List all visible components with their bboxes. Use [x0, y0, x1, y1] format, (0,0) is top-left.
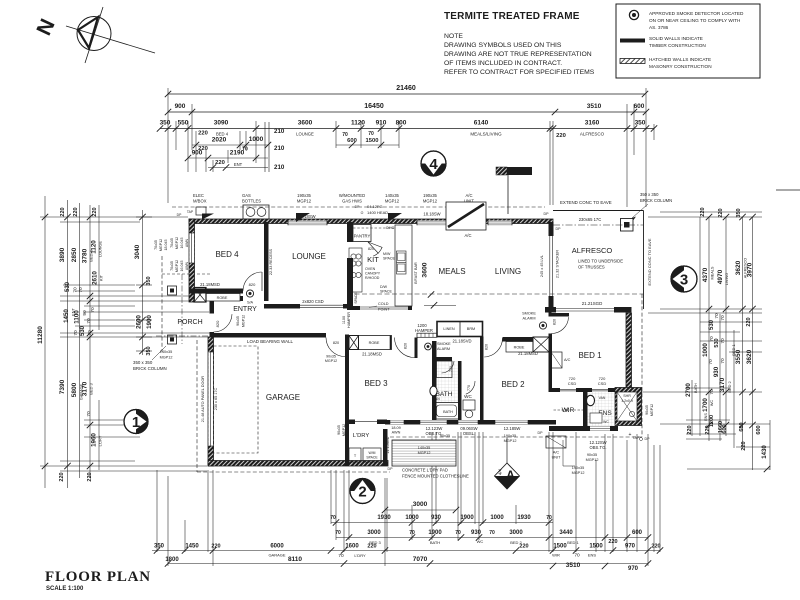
svg-text:TAP: TAP: [187, 210, 194, 214]
svg-text:70: 70: [73, 330, 79, 336]
svg-text:AWN: AWN: [392, 431, 401, 435]
svg-text:BRICK COLUMN: BRICK COLUMN: [133, 366, 167, 371]
svg-text:220: 220: [700, 207, 706, 216]
svg-text:OF TRUSSES: OF TRUSSES: [578, 265, 605, 270]
svg-text:90x35: 90x35: [236, 316, 240, 326]
svg-text:A/C: A/C: [553, 451, 560, 455]
svg-text:DRAWING ARE NOT TRUE REPRESENT: DRAWING ARE NOT TRUE REPRESENTATION: [444, 51, 592, 58]
svg-text:190x35: 190x35: [297, 193, 311, 198]
svg-text:90x35: 90x35: [337, 425, 341, 435]
svg-text:1500: 1500: [553, 544, 567, 550]
svg-text:70: 70: [335, 530, 341, 536]
svg-text:70x35: 70x35: [170, 238, 174, 248]
svg-text:1930: 1930: [517, 515, 531, 521]
svg-text:BATH: BATH: [443, 410, 453, 414]
svg-text:21460: 21460: [396, 85, 416, 92]
svg-text:70: 70: [86, 411, 92, 417]
svg-text:OF ITEMS INCLUDED IN CONTRACT.: OF ITEMS INCLUDED IN CONTRACT.: [444, 60, 562, 67]
svg-text:ALFRESCO: ALFRESCO: [572, 246, 613, 255]
svg-text:2850: 2850: [71, 247, 78, 262]
svg-text:70: 70: [87, 330, 93, 336]
svg-text:1100: 1100: [74, 310, 81, 324]
svg-text:530: 530: [80, 325, 86, 336]
svg-text:220: 220: [367, 544, 376, 550]
svg-text:BOTTLES: BOTTLES: [242, 199, 261, 204]
svg-text:CSD: CSD: [598, 381, 607, 386]
svg-text:3550: 3550: [735, 349, 742, 364]
svg-text:BRM: BRM: [467, 327, 475, 331]
svg-text:90x35: 90x35: [440, 434, 450, 438]
svg-text:1900: 1900: [460, 515, 474, 521]
svg-text:820: 820: [404, 343, 408, 349]
svg-text:BATH: BATH: [694, 383, 698, 393]
svg-text:3000: 3000: [367, 530, 381, 536]
svg-text:70: 70: [720, 315, 726, 321]
svg-text:350: 350: [146, 346, 152, 355]
svg-text:1100: 1100: [342, 316, 346, 324]
svg-text:3440: 3440: [559, 530, 573, 536]
svg-text:A/C: A/C: [564, 358, 571, 362]
svg-text:220: 220: [198, 131, 208, 137]
svg-text:220: 220: [741, 441, 747, 450]
svg-text:350: 350: [146, 276, 152, 285]
svg-text:GAS: GAS: [242, 193, 251, 198]
svg-text:CANOPY: CANOPY: [365, 272, 381, 276]
svg-text:18.09: 18.09: [391, 426, 401, 430]
svg-text:B'FAST BAR: B'FAST BAR: [414, 262, 418, 284]
svg-text:70: 70: [86, 318, 92, 324]
svg-text:210: 210: [274, 128, 285, 135]
svg-text:3090: 3090: [214, 120, 229, 127]
svg-text:1200: 1200: [709, 415, 715, 427]
svg-text:WC: WC: [603, 420, 609, 424]
svg-text:2600: 2600: [136, 315, 143, 329]
svg-text:LOUNGE: LOUNGE: [296, 132, 314, 137]
svg-text:REF: REF: [350, 295, 354, 302]
svg-text:ENT: ENT: [234, 162, 243, 167]
svg-text:OBSL.: OBSL.: [463, 431, 475, 436]
svg-text:220: 220: [92, 207, 98, 216]
svg-text:230 x 65 17C: 230 x 65 17C: [214, 387, 218, 410]
svg-text:3600: 3600: [298, 120, 313, 127]
svg-text:4: 4: [429, 156, 438, 173]
svg-text:770: 770: [449, 366, 453, 372]
svg-text:NOTE: NOTE: [444, 33, 463, 40]
svg-text:1500: 1500: [589, 544, 603, 550]
svg-text:930: 930: [471, 530, 482, 536]
svg-text:ROBE: ROBE: [369, 341, 380, 345]
svg-text:550: 550: [178, 120, 189, 127]
svg-text:GARAGE: GARAGE: [268, 553, 285, 558]
svg-text:ON OR NEAR CEILING TO COMPLY W: ON OR NEAR CEILING TO COMPLY WITH: [649, 18, 740, 23]
svg-text:3620: 3620: [735, 260, 742, 275]
svg-text:A/C: A/C: [465, 233, 472, 238]
svg-text:MGP12: MGP12: [175, 237, 179, 249]
svg-text:600: 600: [739, 422, 745, 431]
svg-text:3000: 3000: [413, 501, 428, 508]
svg-text:600: 600: [632, 530, 643, 536]
svg-text:16450: 16450: [364, 103, 384, 110]
svg-text:220: 220: [556, 133, 566, 139]
svg-text:350 x 350: 350 x 350: [640, 192, 659, 197]
svg-text:970: 970: [628, 566, 639, 572]
svg-text:70: 70: [709, 389, 715, 395]
svg-text:220: 220: [718, 208, 724, 217]
svg-text:2700: 2700: [685, 383, 692, 397]
svg-text:R/HOOD: R/HOOD: [365, 276, 380, 280]
svg-text:930: 930: [713, 366, 720, 377]
svg-text:5800: 5800: [71, 382, 78, 397]
svg-text:SOLID WALLS INDICATE: SOLID WALLS INDICATE: [649, 36, 703, 41]
svg-text:FLOOR PLAN: FLOOR PLAN: [45, 569, 151, 585]
svg-text:220: 220: [519, 544, 528, 550]
svg-text:MGP12: MGP12: [342, 424, 346, 436]
svg-text:APPROVED SMOKE DETECTOR LOCATE: APPROVED SMOKE DETECTOR LOCATED: [649, 11, 744, 16]
svg-text:245 x 45 LVL: 245 x 45 LVL: [540, 255, 544, 277]
svg-text:820: 820: [485, 344, 489, 350]
svg-text:2190: 2190: [230, 150, 245, 157]
svg-text:350: 350: [154, 544, 165, 550]
svg-text:ROBE: ROBE: [217, 296, 228, 300]
svg-text:7070: 7070: [413, 556, 428, 563]
svg-text:OVEN: OVEN: [365, 267, 376, 271]
svg-text:230x65 17C: 230x65 17C: [579, 217, 602, 222]
svg-text:3040: 3040: [134, 244, 141, 259]
svg-text:MEALS/LIVING: MEALS/LIVING: [470, 132, 502, 137]
svg-text:ELEC: ELEC: [193, 193, 204, 198]
svg-text:190x35: 190x35: [572, 466, 584, 470]
svg-text:MGP12: MGP12: [159, 239, 163, 251]
svg-text:BED 1: BED 1: [567, 540, 579, 545]
svg-text:600: 600: [347, 138, 357, 144]
svg-text:VAN: VAN: [433, 397, 440, 401]
svg-text:70x35: 70x35: [170, 261, 174, 271]
svg-text:AS. 3786: AS. 3786: [649, 25, 669, 30]
svg-text:16.045: 16.045: [180, 261, 184, 272]
svg-text:BED 3: BED 3: [364, 379, 388, 388]
svg-text:70: 70: [720, 338, 726, 344]
svg-text:MGP12: MGP12: [423, 199, 438, 204]
svg-text:HATCHED WALLS INDICATE: HATCHED WALLS INDICATE: [649, 57, 711, 62]
svg-text:GAS HWS: GAS HWS: [342, 199, 362, 204]
svg-text:1450: 1450: [63, 309, 70, 323]
svg-text:3620: 3620: [746, 349, 753, 364]
svg-text:16.045: 16.045: [180, 238, 184, 249]
svg-text:3000: 3000: [509, 530, 523, 536]
svg-text:WIR: WIR: [562, 407, 575, 414]
svg-text:90x35: 90x35: [326, 355, 336, 359]
svg-text:1000: 1000: [405, 515, 419, 521]
svg-text:21.21SGD: 21.21SGD: [582, 301, 603, 306]
svg-text:DP: DP: [645, 437, 651, 441]
svg-text:HAMPER: HAMPER: [347, 312, 351, 329]
svg-text:3170: 3170: [719, 377, 726, 392]
svg-text:SMOKE: SMOKE: [437, 342, 451, 346]
svg-text:350: 350: [635, 120, 646, 127]
svg-text:GARAGE: GARAGE: [266, 393, 300, 402]
svg-text:LIVING: LIVING: [725, 273, 729, 285]
svg-text:L'DRY: L'DRY: [354, 553, 366, 558]
svg-text:DP: DP: [544, 212, 550, 216]
svg-text:140x35: 140x35: [418, 446, 430, 450]
svg-text:1700: 1700: [702, 398, 709, 412]
svg-text:220: 220: [60, 207, 66, 216]
svg-text:140x35: 140x35: [160, 350, 172, 354]
svg-text:MGP12: MGP12: [160, 356, 173, 360]
svg-text:1400 HEAD: 1400 HEAD: [367, 210, 388, 215]
svg-text:SPACE: SPACE: [366, 456, 378, 460]
svg-text:MGP12: MGP12: [650, 404, 654, 416]
svg-text:8110: 8110: [288, 556, 302, 563]
svg-text:S/A: S/A: [247, 301, 254, 305]
svg-text:220: 220: [215, 160, 225, 166]
svg-text:350: 350: [736, 208, 742, 217]
svg-text:MGP12: MGP12: [504, 439, 517, 443]
svg-text:BED 2: BED 2: [501, 380, 525, 389]
svg-text:LINEN: LINEN: [443, 327, 454, 331]
svg-text:AWN: AWN: [185, 238, 189, 247]
svg-text:3: 3: [680, 272, 688, 289]
svg-text:ENTRY: ENTRY: [233, 306, 257, 313]
svg-text:1450: 1450: [185, 544, 199, 550]
svg-text:2x820 CSD: 2x820 CSD: [302, 299, 323, 304]
svg-text:820: 820: [249, 282, 256, 287]
svg-text:190x35: 190x35: [423, 193, 437, 198]
svg-text:1: 1: [132, 414, 140, 431]
svg-text:1120: 1120: [351, 120, 365, 127]
svg-text:18.18SW: 18.18SW: [423, 212, 440, 217]
svg-text:WC: WC: [464, 394, 472, 399]
svg-text:VAN: VAN: [599, 396, 606, 400]
svg-text:DP: DP: [556, 227, 562, 231]
svg-text:970: 970: [625, 544, 636, 550]
svg-text:220: 220: [73, 207, 79, 216]
svg-text:820: 820: [333, 341, 339, 345]
svg-text:1960: 1960: [91, 433, 98, 447]
svg-text:3600: 3600: [422, 262, 429, 277]
svg-text:21.48 AUTO PANEL DOOR: 21.48 AUTO PANEL DOOR: [201, 376, 205, 423]
svg-text:1800: 1800: [165, 557, 179, 563]
svg-text:220: 220: [687, 425, 693, 434]
svg-text:HAMPER: HAMPER: [415, 328, 433, 333]
svg-text:MGP12: MGP12: [586, 458, 599, 462]
svg-text:DP: DP: [177, 213, 182, 217]
svg-text:WC: WC: [477, 539, 484, 544]
svg-text:21.18SVD: 21.18SVD: [452, 339, 471, 344]
svg-text:1900: 1900: [146, 315, 153, 329]
svg-text:LOUNGE: LOUNGE: [99, 241, 103, 258]
svg-text:3510: 3510: [566, 562, 581, 569]
svg-text:PANTRY: PANTRY: [354, 234, 371, 239]
svg-text:770: 770: [467, 385, 471, 391]
svg-text:SHR: SHR: [623, 394, 631, 398]
svg-text:MGP12: MGP12: [325, 359, 337, 363]
svg-text:70: 70: [489, 530, 495, 536]
svg-text:KIT: KIT: [367, 255, 379, 264]
svg-text:1000: 1000: [490, 515, 504, 521]
svg-text:70: 70: [455, 530, 461, 536]
svg-text:MASONRY CONSTRUCTION: MASONRY CONSTRUCTION: [649, 64, 712, 69]
svg-text:70: 70: [78, 287, 84, 293]
svg-text:70: 70: [90, 307, 96, 313]
svg-text:MEALS: MEALS: [711, 266, 715, 279]
svg-text:90x35: 90x35: [645, 405, 649, 415]
svg-text:BED 3: BED 3: [89, 382, 94, 394]
svg-text:A/C: A/C: [466, 193, 473, 198]
svg-text:TIMBER CONSTRUCTION: TIMBER CONSTRUCTION: [649, 43, 706, 48]
svg-text:220: 220: [608, 539, 617, 545]
svg-text:2: 2: [358, 484, 366, 501]
svg-text:A: A: [506, 468, 515, 482]
svg-text:70: 70: [73, 287, 79, 293]
svg-text:MGP12: MGP12: [242, 315, 246, 327]
svg-text:MGP12: MGP12: [572, 471, 585, 475]
svg-text:KIT: KIT: [100, 274, 104, 281]
svg-text:800: 800: [396, 120, 407, 127]
svg-text:3170: 3170: [82, 381, 89, 396]
svg-text:70: 70: [546, 515, 552, 521]
svg-text:MGP12: MGP12: [297, 199, 312, 204]
svg-text:EXTEND CONC TO EAVE: EXTEND CONC TO EAVE: [560, 200, 612, 205]
svg-text:600: 600: [634, 103, 645, 110]
svg-text:220: 220: [59, 472, 65, 481]
svg-text:1900: 1900: [428, 530, 442, 536]
svg-text:530: 530: [709, 319, 715, 330]
svg-text:4370: 4370: [702, 267, 709, 282]
svg-text:530: 530: [714, 338, 720, 347]
svg-text:220: 220: [211, 544, 220, 550]
svg-text:TERMITE TREATED FRAME: TERMITE TREATED FRAME: [444, 11, 580, 22]
svg-text:11280: 11280: [37, 326, 44, 344]
svg-text:3890: 3890: [59, 247, 66, 262]
svg-text:SPACE: SPACE: [380, 290, 393, 294]
svg-text:L'DRY: L'DRY: [353, 433, 370, 439]
svg-text:MGP12: MGP12: [175, 260, 179, 272]
svg-text:70: 70: [720, 358, 726, 364]
svg-text:DP: DP: [538, 431, 544, 435]
svg-text:930: 930: [431, 515, 442, 521]
svg-text:4/4: 4/4: [498, 468, 503, 475]
svg-text:SMOKE: SMOKE: [522, 312, 536, 316]
svg-text:350 x 350: 350 x 350: [133, 360, 153, 365]
svg-text:ALFRESCO: ALFRESCO: [580, 132, 605, 137]
svg-text:18.045: 18.045: [164, 240, 168, 251]
svg-text:W/M: W/M: [369, 451, 376, 455]
svg-text:210: 210: [274, 164, 285, 171]
svg-text:BRICK COLUMN: BRICK COLUMN: [640, 198, 672, 203]
svg-text:820: 820: [553, 319, 557, 325]
svg-text:M/W: M/W: [383, 252, 391, 256]
svg-text:DP: DP: [388, 467, 394, 471]
svg-text:M/BOX: M/BOX: [193, 199, 207, 204]
svg-text:BED 1: BED 1: [578, 351, 602, 360]
svg-text:PORCH: PORCH: [177, 319, 202, 326]
svg-text:3970: 3970: [747, 262, 754, 277]
svg-text:CONCRETE L'DRY PAD: CONCRETE L'DRY PAD: [402, 468, 448, 473]
svg-text:WC: WC: [710, 400, 714, 407]
svg-text:12.185W: 12.185W: [504, 426, 521, 431]
svg-text:MGP12: MGP12: [385, 199, 400, 204]
svg-text:OBS.TG.: OBS.TG.: [590, 445, 607, 450]
svg-text:BED 1: BED 1: [731, 343, 736, 355]
svg-text:POINT: POINT: [378, 308, 390, 312]
svg-text:SCALE 1:100: SCALE 1:100: [46, 586, 84, 592]
svg-text:70x35: 70x35: [154, 240, 158, 250]
svg-text:UNIT: UNIT: [552, 456, 562, 460]
svg-text:70: 70: [574, 553, 580, 559]
svg-text:70: 70: [714, 313, 720, 319]
svg-text:70: 70: [338, 553, 344, 559]
svg-text:SPACE: SPACE: [383, 257, 396, 261]
svg-text:AWN: AWN: [185, 261, 189, 270]
svg-text:ALARM: ALARM: [437, 347, 450, 351]
svg-text:21.18MSD: 21.18MSD: [200, 282, 220, 287]
svg-text:21.15SGD: 21.15SGD: [386, 436, 390, 453]
svg-text:220: 220: [87, 472, 93, 481]
svg-text:EXTEND CONC TO EAVE: EXTEND CONC TO EAVE: [647, 238, 652, 285]
svg-text:350: 350: [160, 120, 171, 127]
svg-text:1000: 1000: [702, 343, 709, 357]
svg-text:ENS: ENS: [704, 413, 708, 421]
svg-text:820: 820: [215, 320, 220, 327]
svg-text:LINED TO UNDERSIDE: LINED TO UNDERSIDE: [578, 259, 623, 264]
svg-text:530: 530: [65, 281, 71, 292]
svg-text:04.12FG: 04.12FG: [367, 204, 383, 209]
svg-text:190x35: 190x35: [504, 434, 516, 438]
svg-text:2610: 2610: [92, 271, 99, 285]
svg-text:3510: 3510: [587, 103, 602, 110]
svg-text:MGP12: MGP12: [418, 451, 431, 455]
svg-text:22.33 RECESS: 22.33 RECESS: [269, 248, 273, 275]
svg-text:DRAWING SYMBOLS USED ON THIS: DRAWING SYMBOLS USED ON THIS: [444, 42, 562, 49]
svg-text:W/MOUNTED: W/MOUNTED: [339, 193, 365, 198]
svg-text:MEALS: MEALS: [438, 267, 465, 276]
svg-text:70: 70: [708, 359, 714, 365]
svg-text:1500: 1500: [366, 138, 379, 144]
svg-text:LOUNGE: LOUNGE: [292, 252, 326, 261]
svg-text:LIVING: LIVING: [495, 267, 521, 276]
svg-text:CSD: CSD: [568, 381, 577, 386]
svg-text:900: 900: [192, 150, 203, 157]
svg-text:1.2x0.9: 1.2x0.9: [621, 399, 633, 403]
svg-text:ENS: ENS: [588, 553, 597, 558]
svg-text:WIR: WIR: [552, 553, 560, 558]
svg-text:210: 210: [274, 145, 285, 152]
svg-text:1930: 1930: [377, 515, 391, 521]
svg-text:SPACE: SPACE: [354, 292, 358, 304]
svg-text:21.32 STACKER: 21.32 STACKER: [556, 250, 560, 278]
svg-text:O: O: [361, 211, 364, 215]
svg-text:900: 900: [175, 103, 186, 110]
svg-text:BED 2: BED 2: [727, 380, 732, 392]
svg-text:90: 90: [82, 310, 88, 316]
svg-text:L'DRY: L'DRY: [99, 435, 103, 446]
svg-text:LOAD BEARING WALL: LOAD BEARING WALL: [247, 339, 294, 344]
svg-text:ROBE: ROBE: [514, 346, 525, 350]
svg-text:7390: 7390: [59, 379, 66, 394]
svg-text:REFER TO CONTRACT FOR SPECIFIE: REFER TO CONTRACT FOR SPECIFIED ITEMS: [444, 69, 595, 76]
svg-text:1660: 1660: [718, 421, 724, 433]
svg-text:1430: 1430: [762, 445, 768, 459]
svg-text:220: 220: [746, 317, 752, 326]
svg-text:+: +: [629, 432, 632, 438]
svg-text:1120: 1120: [91, 240, 98, 254]
svg-text:70: 70: [368, 131, 374, 137]
svg-text:FENCE MOUNTED CLOTHESLINE: FENCE MOUNTED CLOTHESLINE: [402, 474, 469, 479]
svg-text:21.18MSD: 21.18MSD: [362, 352, 382, 357]
svg-text:2020: 2020: [212, 137, 227, 144]
svg-text:600: 600: [756, 425, 762, 434]
